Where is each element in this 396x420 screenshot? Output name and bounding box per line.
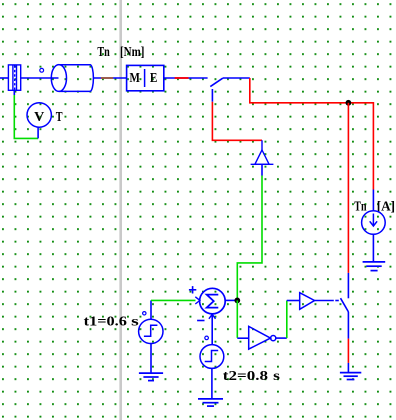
wire	[347, 103, 349, 273]
wire	[14, 95, 38, 139]
svg-text:E: E	[150, 71, 158, 86]
small circle marker	[143, 312, 146, 315]
wire	[347, 273, 349, 298]
plus sign	[189, 286, 196, 293]
wire red segment	[347, 339, 349, 363]
svg-text:Tn: Tn	[97, 45, 110, 60]
wire	[0, 77, 8, 79]
wire	[211, 368, 213, 398]
wire	[150, 343, 152, 373]
fixed support clamp	[8, 65, 20, 90]
ground under t1	[139, 373, 163, 381]
wire	[236, 300, 238, 337]
svg-text:Tn: Tn	[354, 200, 366, 215]
rotational flange wire	[101, 77, 113, 79]
svg-text:t1=0.6: t1=0.6	[84, 314, 127, 329]
wire	[237, 337, 248, 339]
switch S2 lever	[341, 298, 349, 312]
wire	[150, 300, 152, 319]
svg-text:t2=0.8: t2=0.8	[223, 369, 268, 384]
wire	[287, 300, 300, 302]
ground bottom right	[340, 373, 361, 380]
wire	[164, 77, 208, 79]
svg-text:T: T	[56, 110, 63, 125]
ground under sensor	[363, 262, 386, 271]
svg-text:V: V	[34, 110, 44, 125]
step source t1	[139, 319, 163, 343]
wire	[21, 77, 59, 79]
node junction	[346, 100, 352, 106]
ground under t2	[198, 399, 223, 406]
wire	[315, 300, 334, 302]
small circle marker	[205, 336, 209, 340]
wire	[223, 77, 250, 79]
svg-text:M: M	[130, 71, 140, 86]
wire	[151, 299, 196, 301]
wire	[372, 190, 374, 211]
wire dash	[335, 300, 339, 302]
wire	[211, 89, 213, 102]
boolean input arrow of S2	[300, 293, 315, 310]
svg-text:s: s	[273, 369, 280, 384]
step source t2 input arrow	[211, 315, 213, 345]
svg-text:[Nm]: [Nm]	[120, 45, 144, 60]
wire	[372, 234, 374, 261]
wire	[237, 176, 262, 301]
summation block	[200, 288, 226, 314]
NOT gate	[249, 326, 276, 349]
boolean input arrow of S1	[251, 140, 274, 164]
input arrowhead	[195, 297, 200, 304]
torque sensor V	[27, 103, 51, 127]
wire red segment	[175, 77, 189, 79]
wire	[261, 164, 263, 175]
minus sign	[197, 320, 204, 322]
wire	[347, 363, 349, 372]
wire	[212, 102, 262, 141]
step source t2	[200, 345, 224, 369]
node junction	[234, 298, 240, 304]
inertia J	[51, 65, 93, 92]
wire	[347, 312, 349, 339]
wire	[276, 337, 287, 339]
switch S1 lever	[210, 78, 223, 87]
svg-text:s: s	[131, 314, 139, 329]
small circle marker	[40, 68, 44, 72]
EMF converter M|E	[127, 65, 164, 90]
current sensor	[362, 211, 386, 235]
wire	[94, 77, 127, 79]
wire	[225, 299, 237, 301]
wire	[286, 301, 288, 339]
wire	[250, 78, 374, 190]
